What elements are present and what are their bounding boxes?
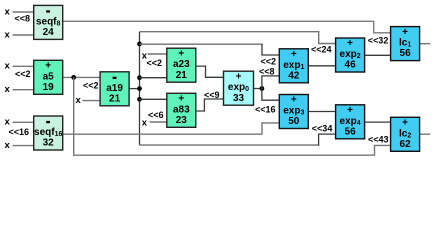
- wire x to a19 in2: [83, 100, 101, 102]
- wire bus to a23 in2: [140, 77, 167, 79]
- wire x to seqf16 in2: [13, 145, 34, 147]
- svg-text:x: x: [5, 61, 11, 72]
- svg-text:62: 62: [400, 139, 412, 150]
- wire lc1 out: [420, 43, 431, 45]
- wire bus to a83 in1: [140, 98, 167, 100]
- svg-text:<<8: <<8: [14, 14, 30, 24]
- wire seqf8 out to lc1 in1, shift <<32: [63, 21, 391, 33]
- svg-text:a5: a5: [43, 71, 55, 82]
- block a5: [34, 60, 63, 94]
- block seqf8: [34, 5, 63, 39]
- wire bus top to exp2 in1, shift <<24: [140, 32, 336, 44]
- block lc2: [391, 117, 420, 151]
- wire x to a23 in1: [148, 53, 167, 55]
- block a19: [100, 72, 129, 106]
- svg-text:+: +: [402, 27, 408, 38]
- svg-text:x: x: [142, 117, 148, 128]
- junction bus / exp1 branch: [137, 42, 142, 47]
- wire a83 out to exp0 in2, shift <<9: [196, 99, 224, 111]
- wire bus to exp1 in1, shift <<2: [140, 44, 280, 55]
- svg-text:21: 21: [109, 93, 121, 104]
- wire x to seqf8 in1: [13, 11, 34, 13]
- svg-text:x: x: [5, 140, 11, 151]
- wire bus vertical (a19 out distribution): [139, 32, 141, 145]
- svg-text:56: 56: [345, 126, 357, 137]
- svg-text:24: 24: [43, 27, 55, 38]
- svg-text:<<34: <<34: [312, 123, 333, 133]
- block seqf16: [34, 116, 63, 150]
- wire x to a5 in2: [13, 89, 34, 91]
- svg-text:<<8: <<8: [259, 66, 275, 76]
- wire seqf16 out to exp3 in2, shift <<16: [63, 123, 280, 134]
- svg-text:+: +: [402, 118, 408, 129]
- wire a19 out to bus: [129, 88, 139, 90]
- block lc1: [391, 27, 420, 61]
- svg-text:46: 46: [345, 60, 357, 71]
- wire a23 out to exp0 in1: [196, 66, 224, 77]
- block exp4: [336, 105, 365, 139]
- svg-text:x: x: [5, 29, 11, 40]
- junction exp0 out: [260, 86, 265, 91]
- svg-text:<<43: <<43: [368, 134, 389, 144]
- block exp0: [224, 71, 254, 105]
- svg-text:a23: a23: [173, 59, 190, 70]
- svg-text:+: +: [45, 61, 51, 72]
- svg-text:+: +: [178, 48, 184, 59]
- svg-text:50: 50: [288, 116, 300, 127]
- wire x to a5 in1: [13, 65, 34, 67]
- svg-text:<<24: <<24: [311, 44, 332, 54]
- junction bus / a19 out: [137, 86, 142, 91]
- junction bus / a83 in1: [137, 97, 142, 102]
- svg-text:<<32: <<32: [368, 36, 389, 46]
- svg-text:+: +: [347, 105, 353, 116]
- svg-text:56: 56: [400, 48, 412, 59]
- svg-text:<<9: <<9: [204, 90, 220, 100]
- svg-text:<<16: <<16: [255, 105, 276, 115]
- junction a5 out: [71, 75, 76, 80]
- wire lc2 out: [420, 133, 431, 135]
- wire x to seqf8 in2: [13, 34, 34, 36]
- wire exp0 out up to exp1 in2, shift <<8: [262, 76, 279, 89]
- block exp1: [279, 49, 308, 83]
- svg-text:+: +: [291, 49, 297, 60]
- block a83: [167, 93, 196, 127]
- wire exp0 out to junction: [254, 88, 262, 90]
- wire x to a83 in2: [150, 121, 167, 123]
- wire exp2 out to lc1 in2: [365, 54, 391, 56]
- svg-text:32: 32: [43, 138, 55, 149]
- svg-text:x: x: [76, 95, 82, 106]
- block a23: [167, 48, 196, 82]
- svg-text:x: x: [5, 6, 11, 17]
- svg-text:<<6: <<6: [148, 110, 164, 120]
- svg-text:19: 19: [43, 82, 55, 93]
- wire exp1 out to exp2 in2: [308, 65, 335, 67]
- svg-text:+: +: [236, 71, 242, 82]
- block exp3: [279, 95, 308, 129]
- svg-text:a83: a83: [173, 104, 190, 115]
- svg-text:+: +: [178, 94, 184, 105]
- svg-text:42: 42: [288, 70, 300, 81]
- svg-text:+: +: [347, 38, 353, 49]
- svg-text:<<2: <<2: [15, 69, 31, 79]
- wire x to seqf16 in1: [13, 121, 34, 123]
- svg-text:23: 23: [176, 115, 188, 126]
- svg-text:<<2: <<2: [147, 58, 163, 68]
- svg-text:<<16: <<16: [8, 127, 29, 137]
- block exp2: [336, 38, 365, 72]
- svg-text:<<2: <<2: [83, 80, 99, 90]
- wire a5 out down and along bottom to lc2 in2, shift <<43: [74, 77, 391, 155]
- svg-text:a19: a19: [106, 83, 123, 94]
- svg-text:x: x: [5, 84, 11, 95]
- svg-text:<<2: <<2: [261, 57, 277, 67]
- wire exp3 out to exp4 in1: [308, 111, 335, 113]
- svg-text:+: +: [291, 95, 297, 106]
- wire exp4 out to lc2 in1: [365, 121, 391, 123]
- wire exp0 out down to exp3 in1: [262, 89, 279, 101]
- wire a5 out to a19 in1, shift <<2: [63, 76, 100, 78]
- svg-text:21: 21: [176, 70, 188, 81]
- junction bus / a23 in2: [137, 75, 142, 80]
- wire bus bottom to exp4 in2, shift <<34: [140, 134, 336, 146]
- svg-text:33: 33: [233, 93, 245, 104]
